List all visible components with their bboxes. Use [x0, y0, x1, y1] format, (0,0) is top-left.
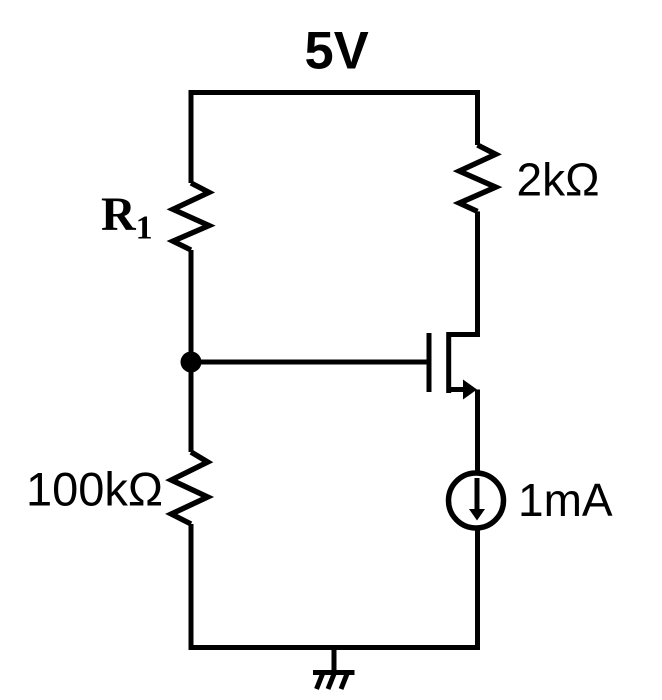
svg-text:100kΩ: 100kΩ: [26, 462, 163, 515]
svg-text:5V: 5V: [305, 21, 369, 80]
svg-text:2kΩ: 2kΩ: [517, 153, 600, 205]
svg-text:1mA: 1mA: [518, 474, 613, 526]
